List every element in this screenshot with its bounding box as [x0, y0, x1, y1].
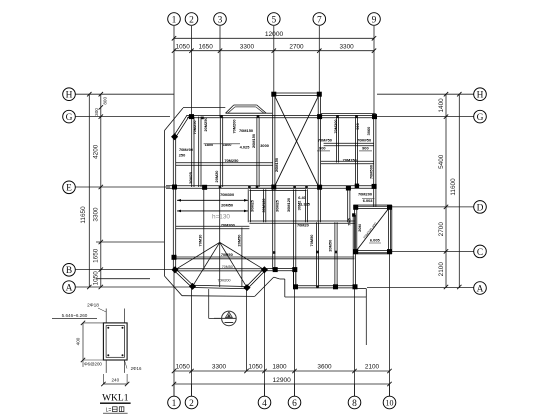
detail beam side lines above [105, 309, 107, 323]
extension line at bay column [246, 289, 248, 371]
node at 3/E [219, 186, 222, 189]
svg-text:3300: 3300 [212, 364, 227, 371]
svg-text:H: H [66, 91, 73, 101]
beam on axis G [187, 117, 374, 119]
beam y=257 parallel line [176, 258, 355, 260]
svg-text:2: 2 [189, 15, 194, 25]
svg-text:20M150: 20M150 [251, 134, 256, 148]
svg-text:2700: 2700 [289, 43, 304, 50]
bay column right [261, 266, 268, 273]
svg-text:20M250: 20M250 [203, 117, 208, 131]
leader 2Φ18 [98, 308, 106, 312]
svg-text:11600: 11600 [450, 178, 457, 196]
svg-text:5400: 5400 [438, 154, 445, 169]
axis bubble B (left) [63, 264, 76, 277]
beam on axis E [166, 187, 376, 189]
svg-text:70M20: 70M20 [297, 222, 309, 227]
wall on axis A [295, 287, 358, 289]
svg-text:30M25: 30M25 [250, 199, 255, 212]
node at E x=257 [256, 185, 259, 188]
axis bubble H (left) [63, 88, 76, 101]
column at 1/E [172, 185, 177, 190]
balcony left wall [354, 207, 356, 251]
bay window outer right chamfer [255, 277, 274, 296]
column at E x=348.4 [346, 186, 351, 191]
wall on axis B right of bay [266, 270, 295, 272]
underline 5.646~6.260 [52, 318, 97, 320]
interior beam y=162.5 [321, 163, 374, 165]
svg-text:2Φ18: 2Φ18 [87, 303, 99, 309]
leader phi6@200 [82, 360, 84, 367]
stairwell X brace diagonal 1 [274, 94, 320, 188]
svg-text:3300: 3300 [240, 43, 255, 50]
span arrow beam y=200.3 [177, 199, 248, 201]
bay right chamfer beam [248, 271, 265, 289]
axis bubble D (right) [474, 201, 487, 214]
svg-text:5.646~6.260: 5.646~6.260 [62, 313, 88, 318]
detail subtitle fake hanzi 2 [119, 407, 124, 412]
outer edge to stairwell [266, 112, 272, 114]
cell wall x=294.6 [293, 189, 295, 222]
svg-text:5: 5 [271, 15, 276, 25]
axis line 4 lower extension [264, 271, 266, 396]
column at B x=275.2 [273, 267, 278, 272]
outer edge to wall corner [358, 288, 367, 290]
detail 400 dimension line [82, 323, 84, 360]
column at A/8 [353, 284, 358, 289]
svg-text:1: 1 [172, 15, 177, 25]
fan beam to bay bottom-left column [193, 242, 220, 286]
svg-text:70M#50: 70M#50 [357, 138, 371, 143]
axis bubble A (left) [63, 281, 76, 294]
column at B/6 [292, 267, 297, 272]
node at E x=306.5 [305, 186, 308, 189]
axis line A from left circle [76, 286, 190, 288]
bump base line [226, 112, 267, 114]
interior beam x=203.8 [203, 189, 205, 270]
axis bubble 6 (bottom) [288, 396, 301, 409]
left segment dimension line [100, 94, 102, 287]
svg-text:20M20: 20M20 [214, 171, 219, 183]
svg-text:70M200: 70M200 [333, 119, 338, 133]
node at 3/G [220, 115, 223, 118]
cell box right wall [304, 189, 306, 222]
interior beam x=337.5 [335, 117, 337, 163]
leader 2Φ16 [124, 360, 127, 369]
node at G x=356.5 [355, 115, 358, 118]
detail 240 dimension line [103, 383, 127, 385]
svg-text:WKL1: WKL1 [102, 393, 129, 403]
axis line E from left circle [76, 186, 170, 188]
bay top beam on axis B [175, 270, 264, 272]
svg-text:30M25: 30M25 [188, 171, 193, 184]
wall x=354.4 from y=215 down to axis A [352, 215, 354, 287]
svg-text:70M200: 70M200 [232, 119, 237, 133]
wall x=294.6 down to axis A [293, 222, 295, 287]
ladder beam y=227.5 [176, 228, 249, 230]
bottom segment dimension line [174, 370, 390, 372]
svg-text:70M150: 70M150 [343, 157, 357, 162]
svg-text:70M250: 70M250 [192, 120, 197, 134]
axis line 6 lower extension [294, 288, 296, 396]
svg-text:250: 250 [179, 153, 186, 158]
svg-text:70M500: 70M500 [369, 165, 374, 179]
svg-text:A: A [66, 284, 73, 294]
svg-text:70M50: 70M50 [221, 252, 233, 257]
title underline [100, 402, 131, 404]
svg-text:70M300: 70M300 [220, 192, 234, 197]
svg-text:1050: 1050 [176, 43, 191, 50]
svg-text:30M2: 30M2 [297, 200, 302, 211]
node at C x=274 [273, 251, 276, 254]
balcony outer edge bottom [354, 253, 392, 255]
beam x=219.7 from E to fan apex [219, 187, 221, 242]
axis bubble H (right) [474, 88, 487, 101]
axis line 2 lower extension [191, 288, 193, 397]
axis line G to right circle [377, 116, 474, 118]
axis bubble 4 (bottom) [258, 396, 271, 409]
node at C x=317.5 [316, 251, 319, 254]
bay column bottom-left [189, 283, 196, 290]
detail rebar dots [107, 327, 109, 329]
wall x=294.6 between B and A [293, 270, 295, 287]
axis bubble 9 (top) [368, 13, 381, 26]
interior beam x=356.5 [354, 117, 356, 187]
axis line C to right circle [392, 250, 474, 252]
interior beam y=144.5 [324, 145, 374, 147]
balcony outer edge right [391, 205, 393, 254]
span arrow beam y=210.9 [177, 210, 248, 212]
svg-text:A: A [477, 284, 484, 294]
svg-text:70M300: 70M300 [221, 222, 235, 227]
column at A x=335.5 [333, 284, 338, 289]
node at G x=202.5 [201, 117, 204, 120]
bay left chamfer beam [174, 271, 192, 288]
bay bottom beam [193, 288, 248, 289]
axis bubble 7 (top) [313, 13, 326, 26]
beam y=222.2 across center [249, 222, 354, 224]
extension line at y=242 (left) [96, 241, 164, 243]
svg-text:1050: 1050 [92, 271, 99, 286]
axis line G from left circle [76, 116, 170, 118]
section mark triangle [226, 312, 233, 317]
svg-text:20M50: 20M50 [237, 235, 242, 247]
balcony column bottom-left [353, 249, 358, 254]
svg-text:240: 240 [111, 378, 119, 383]
svg-text:G: G [66, 113, 73, 123]
svg-text:70M#00: 70M#00 [179, 147, 193, 152]
balcony top beam (axis D) [356, 208, 390, 210]
right overall dimension line [458, 94, 460, 287]
outer edge bump top [234, 104, 257, 106]
svg-text:L=: L= [106, 408, 112, 414]
axis line 1 (vertical) [173, 26, 175, 137]
svg-text:70M#50: 70M#50 [318, 138, 332, 143]
svg-text:30M25: 30M25 [274, 199, 279, 212]
bottom overall dimension line [174, 383, 390, 385]
svg-text:C: C [477, 248, 483, 258]
svg-text:3000: 3000 [260, 143, 269, 148]
svg-text:20M: 20M [357, 224, 362, 232]
left overall dimension line [88, 94, 90, 287]
balcony outer edge top [354, 204, 392, 206]
cell wall x=249.4 [247, 189, 249, 222]
svg-text:1800: 1800 [223, 142, 232, 147]
axis bubble 8 (bottom) [348, 396, 361, 409]
svg-text:6.40: 6.40 [298, 195, 306, 200]
svg-text:6: 6 [292, 399, 297, 409]
bump inner line left chamfer [228, 107, 235, 113]
detail subtitle fake hanzi 1 [113, 407, 118, 412]
svg-text:4.025: 4.025 [240, 145, 251, 150]
axis bubble A (right) [474, 282, 487, 295]
balcony column top-right [387, 205, 392, 210]
svg-text:1800: 1800 [272, 364, 287, 371]
svg-text:1650: 1650 [92, 248, 99, 263]
svg-text:H: H [477, 91, 484, 101]
svg-text:70M10: 70M10 [198, 235, 203, 247]
axis line H to right circle [377, 93, 474, 95]
column at 2/G [189, 114, 194, 119]
svg-text:Φ6@200: Φ6@200 [84, 362, 102, 367]
axis line 10 lower extension [389, 253, 391, 396]
svg-text:900: 900 [362, 146, 369, 151]
wall left side (axis 1) [172, 137, 174, 270]
svg-text:3300: 3300 [339, 43, 354, 50]
svg-text:1400: 1400 [438, 98, 445, 113]
top segment dimension line [174, 50, 374, 52]
axis line H from left circle [76, 93, 174, 95]
svg-text:7M5: 7M5 [347, 217, 352, 225]
right wall (axis 9) [373, 114, 375, 207]
svg-text:20M50: 20M50 [221, 202, 233, 207]
bump inner line right chamfer [256, 107, 264, 113]
beam stairwell top (axis H) [274, 94, 320, 96]
node at G x=337.5 [336, 115, 339, 118]
axis bubble 2 (bottom) [185, 396, 198, 409]
cell wall x=264.6 [263, 189, 265, 222]
column at E x=356.9 [355, 184, 359, 188]
svg-text:E: E [66, 184, 72, 194]
axis line 5 (vertical) [273, 26, 275, 94]
outer edge right of stairwell [321, 113, 376, 115]
svg-text:4: 4 [262, 399, 267, 409]
interior beam y=164 (left rooms) [176, 164, 273, 166]
outer edge bump left chamfer [226, 105, 234, 113]
node at A x=317.5 [316, 286, 319, 289]
outer edge step top [280, 278, 285, 280]
outer edge left side [164, 131, 166, 277]
node at 6/E [293, 186, 296, 189]
column at 7/G [317, 114, 322, 119]
svg-text:30M120: 30M120 [261, 198, 266, 212]
svg-text:400: 400 [75, 337, 80, 345]
interior beam x=258 [256, 117, 258, 187]
column at 9/G [372, 114, 377, 119]
wall chamfer top-left [174, 115, 188, 136]
column at E x=204.6 [202, 185, 207, 190]
axis line 8 lower extension [354, 288, 356, 396]
detail beam section outline [103, 323, 127, 360]
balcony column bottom-right [387, 249, 392, 254]
node at C x=336 [335, 251, 338, 254]
outer edge step up at right [365, 289, 367, 297]
svg-text:G: G [477, 113, 484, 123]
right segment dimension line [445, 94, 447, 287]
bay window outer left chamfer [165, 276, 183, 296]
axis line D to right circle [392, 206, 474, 208]
interior beam x=336 [334, 222, 336, 287]
fan beam to bay left column [175, 242, 220, 269]
axis line B from left circle [76, 269, 172, 271]
cell box top wall [249, 190, 306, 192]
svg-text:12900: 12900 [273, 377, 292, 384]
svg-text:6.005: 6.005 [370, 237, 381, 242]
svg-text:8: 8 [352, 399, 357, 409]
svg-text:2100: 2100 [365, 364, 380, 371]
svg-text:70M150: 70M150 [239, 128, 253, 133]
svg-text:2100: 2100 [438, 262, 445, 277]
svg-text:20M150: 20M150 [274, 158, 279, 172]
column x=353.8 y=215 [352, 213, 355, 216]
interior beam x=199.8 [198, 117, 200, 187]
balcony bottom beam (axis C) [356, 252, 390, 254]
axis bubble C (right) [474, 245, 487, 258]
outer edge bottom-right horizontal [285, 296, 367, 298]
svg-text:70M250: 70M250 [224, 158, 238, 163]
outer edge bump right chamfer [257, 105, 266, 113]
column at 7/E [317, 185, 322, 190]
subtitle underline [103, 412, 128, 414]
outer edge step down [284, 279, 286, 297]
svg-text:2700: 2700 [438, 222, 445, 237]
svg-text:D: D [477, 203, 484, 213]
section mark circle [222, 311, 237, 326]
svg-text:3: 3 [218, 15, 223, 25]
axis bubble 5 (top) [268, 13, 281, 26]
svg-text:800: 800 [103, 97, 108, 105]
section mark leader line [208, 289, 210, 318]
balcony right wall [387, 207, 389, 251]
axis bubble 1 (top) [168, 13, 181, 26]
svg-text:1650: 1650 [199, 43, 214, 50]
axis bubble E (left) [63, 181, 76, 194]
svg-text:3300: 3300 [92, 207, 99, 222]
bay column left [171, 266, 178, 273]
column on chamfer (axis 1) [171, 133, 178, 140]
svg-text:70M50: 70M50 [309, 235, 314, 247]
column at 7/H [317, 92, 322, 97]
axis line 9 (vertical) [373, 26, 375, 114]
column on left wall y=257 [172, 255, 177, 260]
outer edge top-left horizontal [183, 107, 225, 109]
axis line A to right circle [367, 287, 474, 289]
svg-text:1050: 1050 [176, 364, 191, 371]
svg-text:4200: 4200 [92, 144, 99, 159]
axis bubble G (left) [63, 110, 76, 123]
column at A/6 [293, 284, 298, 289]
svg-text:30M120: 30M120 [286, 198, 291, 212]
fan beam to bay bottom-right column [220, 242, 247, 287]
stairwell right wall extension below E [317, 189, 319, 222]
svg-text:1.325: 1.325 [300, 201, 311, 206]
detail stirrup inner rect [106, 326, 124, 358]
svg-text:70M200: 70M200 [218, 279, 231, 283]
node at E x=249.4 [248, 186, 251, 189]
stairwell right wall (axis 7) [317, 94, 319, 189]
svg-text:2Φ16: 2Φ16 [131, 366, 142, 371]
axis bubble 2 (top) [185, 13, 198, 26]
svg-text:B: B [66, 266, 72, 276]
extension line below outer contour [365, 297, 367, 345]
svg-text:70M50: 70M50 [222, 265, 233, 269]
svg-text:900: 900 [319, 146, 326, 151]
svg-text:12000: 12000 [265, 31, 284, 38]
interior beam x=348.8 below E [347, 188, 349, 223]
bay window outer bottom [182, 295, 255, 298]
balcony diagonal beam [356, 207, 390, 251]
interior beam x=192.8 (axis 2) [191, 117, 193, 187]
axis bubble 1 (bottom) [168, 396, 181, 409]
column at 5/H [271, 92, 276, 97]
svg-text:1050: 1050 [248, 364, 263, 371]
fan beam straight down [219, 242, 221, 287]
svg-text:1800: 1800 [205, 142, 214, 147]
stairwell left wall (axis 5) [272, 94, 274, 189]
svg-text:3600: 3600 [317, 364, 332, 371]
column at 9/E [372, 184, 377, 189]
axis line 3 (vertical) [219, 26, 221, 117]
axis line 7 (vertical) [318, 26, 320, 94]
svg-text:1: 1 [172, 399, 177, 409]
node at G x=258 [257, 115, 260, 118]
svg-text:7: 7 [317, 15, 322, 25]
column at 5/E [271, 185, 276, 190]
svg-text:2: 2 [189, 399, 194, 409]
interior beam x=241.9 [241, 228, 243, 288]
svg-text:11650: 11650 [80, 206, 87, 224]
short extension line y=278.7 (left) [96, 278, 150, 280]
axis bubble 10 (bottom) [383, 396, 396, 409]
svg-text:3060: 3060 [366, 127, 371, 136]
section mark dash [225, 322, 234, 324]
interior beam x=221.5 (axis 3) [219, 117, 221, 187]
svg-text:900: 900 [355, 123, 360, 130]
detail beam side lines below [105, 360, 107, 373]
outer edge after bay [274, 277, 280, 279]
bay column bottom-right [243, 284, 250, 291]
interior beam x=317.5 [315, 222, 317, 287]
svg-text:9: 9 [372, 15, 377, 25]
axis bubble G (right) [474, 110, 487, 123]
balcony column top-left [353, 205, 358, 210]
bump inner line top [235, 106, 256, 108]
axis line 1 lower extension [173, 271, 175, 396]
svg-text:20M50: 20M50 [328, 240, 333, 252]
fan beam to bay right column [220, 242, 265, 269]
beam y=257 long [176, 256, 355, 258]
svg-text:70M200: 70M200 [358, 192, 372, 197]
svg-text:300: 300 [94, 108, 99, 116]
stairwell X brace diagonal 2 [274, 94, 320, 188]
outer edge top-left chamfer [165, 108, 184, 131]
svg-text:10: 10 [386, 398, 394, 407]
axis bubble 3 (top) [214, 13, 227, 26]
top overall dimension line [174, 37, 374, 39]
svg-text:h=130: h=130 [212, 214, 230, 221]
wall x=273.8 down to axis B [272, 189, 274, 270]
axis line 2 (vertical) [191, 26, 193, 117]
